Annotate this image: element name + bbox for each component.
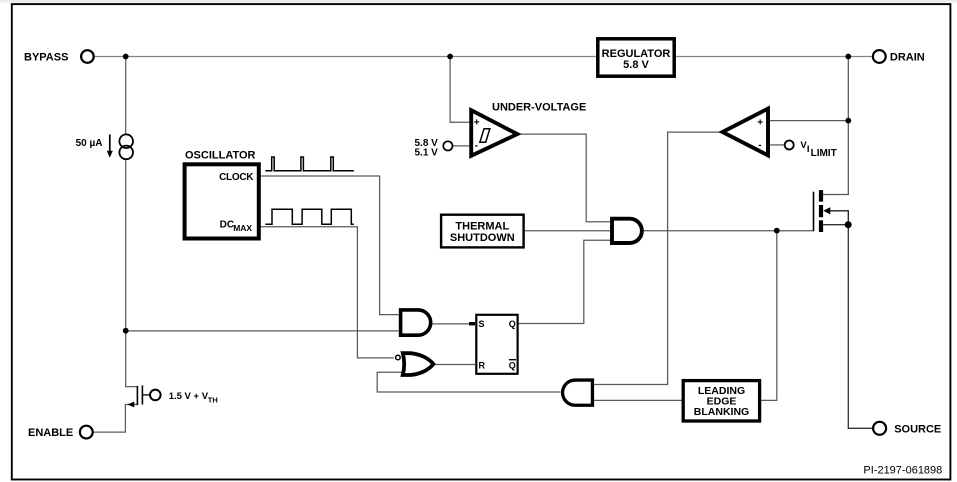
svg-text:Q: Q <box>509 319 516 329</box>
wire latch Q to AND2 bottom input <box>519 240 610 323</box>
node enable junction <box>123 328 129 334</box>
wire bypass rail <box>94 56 873 58</box>
wire AND3 bottom input to LEB <box>594 399 682 401</box>
svg-text:PI-2197-061898: PI-2197-061898 <box>863 465 942 477</box>
svg-text:S: S <box>479 319 485 329</box>
wire comparator output down to AND3 top input <box>594 132 721 384</box>
wire left vertical bypass to current source <box>125 57 127 135</box>
svg-text:+: + <box>474 117 480 128</box>
svg-text:+: + <box>757 117 763 128</box>
regulator U2 5.8V <box>598 39 674 76</box>
node mosfet source junction <box>845 221 852 228</box>
wire enable junction down to small mosfet drain <box>126 331 138 387</box>
wire enable terminal to small mosfet source <box>93 405 137 433</box>
svg-text:SOURCE: SOURCE <box>894 423 941 435</box>
transistor Q2 enable mosfet <box>136 386 138 405</box>
or-gate U7 <box>403 353 434 375</box>
svg-text:50 µA: 50 µA <box>76 138 103 149</box>
node comparator plus junction <box>845 118 851 124</box>
svg-text:5.8 V: 5.8 V <box>623 59 649 71</box>
wire dcmax output to OR bubble <box>259 227 393 358</box>
node UV tap junction <box>447 54 453 60</box>
svg-text:THERMAL: THERMAL <box>455 221 509 233</box>
and-gate U9 (left facing) <box>563 380 593 405</box>
wire OR output to latch R <box>436 364 476 366</box>
clock waveform <box>265 157 353 171</box>
wire UV plus input from rail <box>450 57 469 123</box>
wire OR bottom input from feedback <box>377 372 560 392</box>
wire comparator minus input stub <box>770 144 785 146</box>
wire LEB output up to gate node <box>761 231 777 401</box>
svg-text:1.5 V + V: 1.5 V + V <box>169 391 209 402</box>
svg-text:I: I <box>807 144 810 155</box>
svg-text:DRAIN: DRAIN <box>890 51 925 63</box>
wire comparator plus input from drain line <box>770 120 848 122</box>
wire mosfet body arrow line <box>827 211 849 225</box>
terminal SOURCE <box>873 422 886 435</box>
wire UV minus input stub <box>453 145 470 147</box>
transistor Q1 output mosfet <box>813 192 815 232</box>
svg-text:CLOCK: CLOCK <box>219 172 254 183</box>
svg-text:-: - <box>475 141 478 152</box>
terminal BYPASS <box>81 50 94 63</box>
svg-text:5.1 V: 5.1 V <box>415 147 439 158</box>
pin S input tick <box>469 322 475 325</box>
wire current source to enable junction <box>125 159 127 331</box>
svg-text:MAX: MAX <box>233 223 252 233</box>
wire mosfet source to source terminal <box>823 225 873 429</box>
node drain junction <box>845 54 851 60</box>
wire clock output <box>259 176 399 315</box>
terminal ENABLE <box>80 426 93 439</box>
node UV minus input circle <box>443 141 452 150</box>
svg-text:OSCILLATOR: OSCILLATOR <box>185 150 256 162</box>
node bypass junction <box>123 54 129 60</box>
svg-text:DC: DC <box>220 220 234 231</box>
wire drain vertical <box>823 57 848 195</box>
svg-text:TH: TH <box>208 396 218 405</box>
svg-text:BYPASS: BYPASS <box>24 51 68 63</box>
node OR bubble <box>396 355 401 360</box>
leading edge blanking U10 <box>683 381 759 421</box>
svg-text:BLANKING: BLANKING <box>694 406 749 418</box>
svg-text:UNDER-VOLTAGE: UNDER-VOLTAGE <box>492 102 586 114</box>
and-gate U6 (clock/enable) <box>401 310 431 335</box>
terminal DRAIN <box>873 50 886 63</box>
thermal shutdown U4 <box>441 215 523 248</box>
svg-text:SHUTDOWN: SHUTDOWN <box>450 232 515 244</box>
current source I1 50uA <box>119 134 133 148</box>
node comparator minus input circle <box>785 141 794 150</box>
svg-text:LIMIT: LIMIT <box>811 148 837 159</box>
wire thermal shutdown to AND2 middle input <box>525 230 610 232</box>
svg-text:R: R <box>479 361 486 371</box>
wire enable junction to AND1 lower input <box>126 330 399 332</box>
svg-text:-: - <box>758 140 761 151</box>
op-amp U11 current limit comparator <box>723 109 769 156</box>
latch U8 S/R <box>476 315 517 374</box>
wire UV output to AND2 top input <box>519 134 610 222</box>
dcmax waveform <box>265 209 353 224</box>
svg-text:Q: Q <box>509 361 516 371</box>
wire AND1 output to latch S <box>432 323 469 325</box>
op-amp U3 under-voltage comparator <box>471 110 517 156</box>
svg-text:ENABLE: ENABLE <box>28 427 73 439</box>
wire AND2 output to mosfet gate <box>642 230 814 232</box>
and-gate U5 (3-input) <box>612 219 642 243</box>
node gate-LEB junction <box>774 228 780 234</box>
top gray strip <box>0 0 957 2</box>
